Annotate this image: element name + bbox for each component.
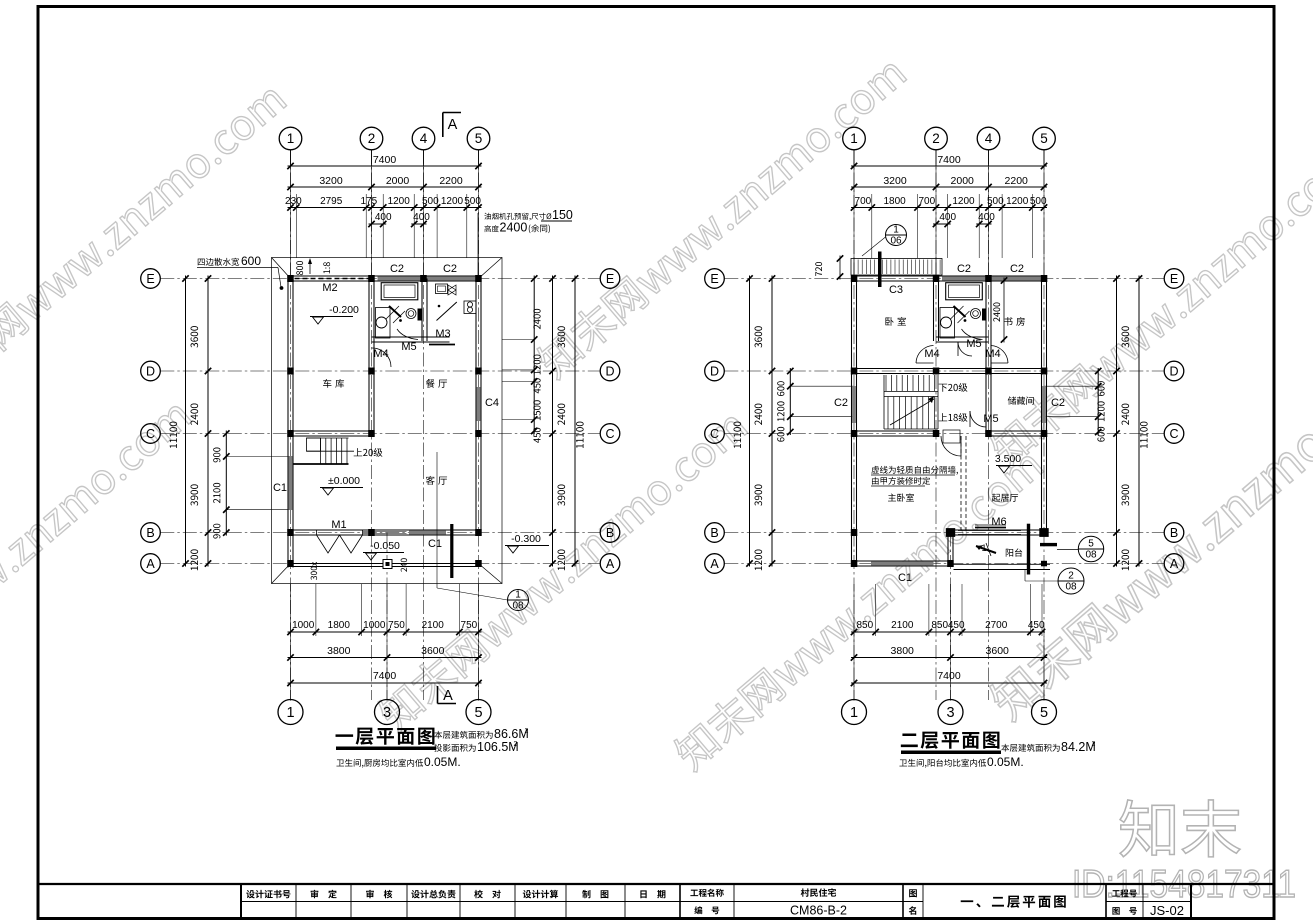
svg-text:2200: 2200 [439, 175, 463, 187]
svg-text:-0.050: -0.050 [370, 540, 400, 552]
svg-text:2400: 2400 [500, 221, 528, 235]
svg-text:750: 750 [461, 620, 478, 631]
svg-text:4: 4 [420, 131, 428, 146]
svg-text:2: 2 [1092, 741, 1096, 748]
svg-text:1000: 1000 [363, 620, 386, 631]
svg-text:230: 230 [285, 196, 302, 207]
svg-text:1: 1 [515, 590, 521, 601]
svg-text:C: C [1169, 427, 1178, 441]
svg-text:M4: M4 [373, 348, 388, 360]
svg-text:106.5M: 106.5M [477, 740, 519, 754]
svg-text:E: E [606, 272, 614, 286]
svg-text:7400: 7400 [937, 670, 961, 682]
svg-text:700: 700 [918, 196, 935, 207]
svg-text:2: 2 [932, 131, 940, 146]
svg-text:M4: M4 [985, 348, 1000, 360]
svg-text:500: 500 [987, 196, 1004, 207]
svg-text:750: 750 [388, 620, 405, 631]
svg-text:3: 3 [946, 705, 954, 721]
svg-text:E: E [146, 272, 154, 286]
svg-text:1200: 1200 [441, 196, 464, 207]
svg-text:A: A [606, 557, 615, 571]
svg-text:1000: 1000 [292, 620, 315, 631]
svg-text:B: B [710, 526, 718, 540]
svg-text:D: D [605, 364, 614, 378]
svg-text:5: 5 [475, 131, 483, 146]
svg-text:D: D [1169, 364, 1178, 378]
svg-text:E: E [1170, 272, 1178, 286]
svg-text:C2: C2 [443, 263, 457, 275]
svg-text:2: 2 [368, 131, 376, 146]
svg-text:7400: 7400 [373, 670, 397, 682]
svg-text:C: C [710, 427, 719, 441]
svg-text:400: 400 [413, 212, 430, 223]
svg-text:C: C [146, 427, 155, 441]
svg-text:C1: C1 [428, 538, 442, 550]
svg-text:C1: C1 [273, 482, 287, 494]
svg-text:7400: 7400 [373, 154, 397, 166]
svg-text:08: 08 [512, 601, 524, 612]
svg-text:B: B [606, 526, 614, 540]
svg-text:500: 500 [422, 196, 439, 207]
svg-text:3200: 3200 [883, 175, 907, 187]
svg-text:M5: M5 [401, 341, 416, 353]
svg-text:06: 06 [890, 236, 902, 247]
svg-text:175: 175 [361, 196, 378, 207]
svg-text:2795: 2795 [320, 196, 343, 207]
svg-text:C2: C2 [390, 263, 404, 275]
svg-text:1: 1 [850, 705, 858, 721]
svg-text:1800: 1800 [883, 196, 906, 207]
svg-text:C2: C2 [957, 263, 971, 275]
svg-text:2700: 2700 [985, 620, 1008, 631]
svg-text:5: 5 [1040, 705, 1048, 721]
svg-text:C3: C3 [889, 284, 903, 296]
svg-text:A: A [710, 557, 719, 571]
svg-text:C2: C2 [1010, 263, 1024, 275]
svg-text:±0.000: ±0.000 [328, 475, 360, 487]
svg-text:D: D [710, 364, 719, 378]
svg-text:M3: M3 [435, 328, 450, 340]
svg-text:1: 1 [286, 705, 294, 721]
svg-text:1200: 1200 [952, 196, 975, 207]
svg-text:3800: 3800 [891, 645, 915, 657]
svg-text:A: A [146, 557, 155, 571]
svg-text:-0.200: -0.200 [329, 304, 359, 316]
svg-text:M5: M5 [983, 413, 998, 425]
svg-text:C4: C4 [485, 397, 499, 409]
svg-text:700: 700 [855, 196, 872, 207]
svg-text:5: 5 [474, 705, 482, 721]
svg-text:3600: 3600 [421, 645, 445, 657]
svg-text:4: 4 [985, 131, 993, 146]
svg-text:2000: 2000 [386, 175, 410, 187]
svg-text:1: 1 [981, 543, 986, 553]
svg-text:08: 08 [1085, 550, 1097, 561]
svg-text:2: 2 [525, 728, 529, 735]
svg-text:2100: 2100 [891, 620, 914, 631]
svg-text:B: B [1170, 526, 1178, 540]
svg-text:E: E [710, 272, 718, 286]
svg-text:A: A [443, 688, 453, 704]
svg-text:850: 850 [856, 620, 873, 631]
svg-text:1: 1 [850, 131, 858, 146]
svg-text:3.500: 3.500 [995, 453, 1021, 465]
svg-text:7400: 7400 [937, 154, 961, 166]
svg-text:5: 5 [1040, 131, 1048, 146]
svg-text:850: 850 [931, 620, 948, 631]
svg-text:CM86-B-2: CM86-B-2 [790, 904, 847, 918]
svg-text:2: 2 [1068, 571, 1074, 582]
svg-text:2100: 2100 [422, 620, 445, 631]
svg-text:08: 08 [1065, 582, 1077, 593]
svg-text:600: 600 [241, 254, 261, 268]
svg-text:M5: M5 [966, 338, 981, 350]
svg-text:M2: M2 [322, 282, 337, 294]
svg-text:2: 2 [514, 741, 518, 748]
svg-text:150: 150 [552, 208, 573, 222]
svg-text:M6: M6 [991, 516, 1006, 528]
svg-text:A: A [1170, 557, 1179, 571]
svg-text:-0.300: -0.300 [511, 533, 541, 545]
svg-text:JS-02: JS-02 [1150, 903, 1184, 918]
svg-text:2000: 2000 [951, 175, 975, 187]
svg-text:B: B [146, 526, 154, 540]
svg-text:400: 400 [978, 212, 995, 223]
svg-text:3800: 3800 [327, 645, 351, 657]
svg-text:5: 5 [1088, 539, 1094, 550]
svg-text:3600: 3600 [986, 645, 1010, 657]
svg-text:3200: 3200 [319, 175, 343, 187]
svg-text:D: D [146, 364, 155, 378]
svg-text:M1: M1 [331, 519, 346, 531]
svg-text:3: 3 [383, 705, 391, 721]
svg-text:1200: 1200 [388, 196, 411, 207]
svg-text:0.05M.: 0.05M. [424, 755, 461, 769]
svg-text:C2: C2 [834, 397, 848, 409]
svg-text:C1: C1 [898, 572, 912, 584]
svg-text:1: 1 [287, 131, 295, 146]
svg-text:C: C [605, 427, 614, 441]
svg-text:1200: 1200 [1006, 196, 1029, 207]
svg-text:1800: 1800 [328, 620, 351, 631]
svg-text:A: A [448, 117, 458, 133]
svg-text:0.05M.: 0.05M. [987, 755, 1024, 769]
svg-text:M4: M4 [924, 348, 939, 360]
svg-text:2200: 2200 [1005, 175, 1029, 187]
svg-text:C2: C2 [1051, 397, 1065, 409]
svg-text:1: 1 [893, 225, 899, 236]
